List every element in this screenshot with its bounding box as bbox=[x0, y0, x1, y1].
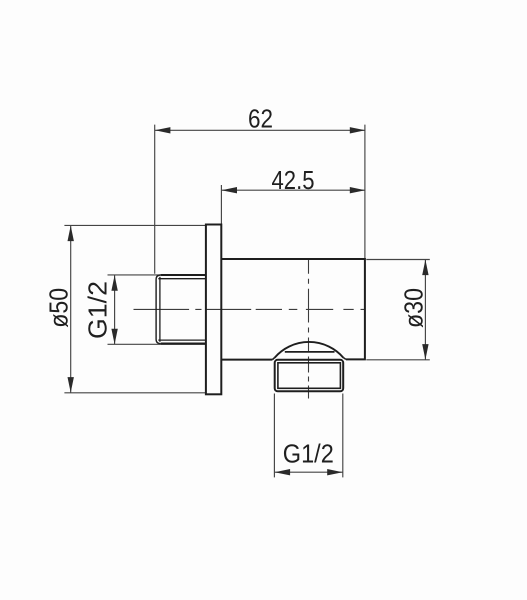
svg-text:G1/2: G1/2 bbox=[83, 281, 113, 339]
svg-text:62: 62 bbox=[248, 104, 273, 134]
svg-text:ø30: ø30 bbox=[398, 288, 428, 328]
svg-text:G1/2: G1/2 bbox=[283, 439, 334, 469]
svg-text:ø50: ø50 bbox=[43, 288, 73, 328]
svg-text:42.5: 42.5 bbox=[272, 165, 315, 195]
